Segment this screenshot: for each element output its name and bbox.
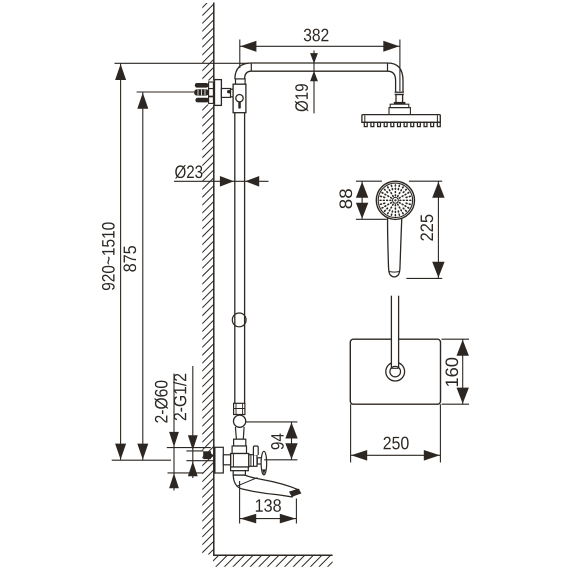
handle connector	[257, 458, 261, 464]
eccentric connector	[223, 455, 230, 465]
column pipe	[235, 113, 245, 404]
dimension Ø19 leader line	[313, 51, 315, 114]
bracket stem	[221, 89, 230, 98]
mixer collar2	[234, 439, 246, 446]
column slider sleeve	[233, 84, 246, 113]
mixer handle	[261, 451, 267, 475]
dimension 225 line	[432, 181, 444, 278]
dimension 160 line	[457, 339, 469, 404]
wall line	[213, 3, 215, 556]
hand shower head	[376, 181, 414, 219]
mixer neck	[235, 427, 244, 439]
spout nut	[231, 467, 249, 471]
spout tip	[289, 489, 301, 497]
dimension 225 extension bottom	[406, 277, 442, 279]
dimension 225 label	[420, 215, 433, 241]
fixture outer circle	[386, 362, 405, 381]
dimension 250 line	[351, 450, 441, 461]
dimension 382 line	[240, 41, 400, 52]
bracket bolt top	[195, 83, 209, 88]
label 2-G1/2 text	[173, 374, 186, 420]
dimension 875 label	[123, 246, 136, 272]
concealed box	[350, 339, 440, 404]
bracket flange plate	[215, 80, 222, 106]
spout neck	[233, 471, 245, 475]
overhead shower nozzle teeth	[364, 122, 440, 126]
dimension 225 extension top right	[409, 180, 442, 182]
bottom shared extension line	[112, 459, 171, 461]
dimension Ø23 label	[175, 165, 202, 178]
shower head flange	[394, 102, 406, 104]
dimension Ø19 label	[295, 84, 308, 111]
label 2-Ø60 leader	[173, 374, 175, 491]
dimension 88 extension bottom	[356, 218, 387, 220]
label 2-Ø60 text	[155, 381, 168, 423]
bracket backing patch	[194, 81, 214, 105]
dimension 382 label	[304, 29, 329, 42]
floor line	[213, 554, 333, 556]
dimension 138 line	[240, 514, 297, 524]
bracket nuts	[209, 82, 214, 103]
label 2-G1/2 arrows	[186, 435, 213, 476]
fixture pipe	[391, 296, 398, 369]
column collar	[236, 79, 246, 84]
bracket bolt middle	[194, 89, 209, 95]
label 2-G1/2 leader	[192, 366, 194, 478]
dimension 88 label	[339, 189, 352, 208]
cartridge rings	[249, 455, 257, 467]
mixer ball joint	[234, 415, 246, 427]
dimension 160 label	[445, 358, 458, 386]
wall hatching	[202, 0, 214, 568]
floor hatching	[207, 555, 357, 568]
dimension 94 line	[285, 422, 297, 460]
dimension 88 line	[356, 181, 368, 219]
mixer body	[231, 454, 249, 468]
shower head stem	[396, 95, 403, 102]
dimension 88 extension top left	[356, 180, 382, 182]
dimension 875 extension line top	[137, 91, 224, 93]
dimension 138 extension right	[295, 499, 297, 524]
bracket centerline	[137, 91, 224, 93]
fixture inner circle	[390, 366, 401, 377]
shower arm elbow left	[235, 63, 251, 79]
wall escutcheon	[215, 447, 223, 473]
dimension 382 extension left	[239, 40, 241, 69]
slider knob	[236, 95, 243, 109]
shower head neck	[389, 104, 410, 114]
dimension 94 extension bottom	[264, 459, 297, 461]
bracket bolt bottom	[195, 98, 209, 103]
dimension 920~1510 label	[102, 222, 115, 290]
label 2-Ø60 arrows	[167, 432, 211, 488]
dimension 920~1510 extension line top	[115, 62, 249, 64]
dimension 138 label	[256, 499, 281, 512]
inlet fitting	[203, 451, 214, 459]
dimension 875 line	[137, 92, 148, 460]
dimension 94 label	[271, 434, 284, 450]
dimension 920~1510 line	[115, 63, 126, 460]
shower arm elbow right	[388, 63, 404, 81]
dimension 382 extension right	[399, 40, 401, 92]
mixer nut	[232, 446, 246, 454]
hand shower nozzle dots	[379, 184, 411, 216]
dimension 94 extension top	[246, 421, 298, 423]
shower arm pipe	[251, 63, 387, 71]
hand shower handle	[388, 213, 402, 277]
bracket ball	[228, 89, 236, 97]
shower head ring nut	[395, 92, 404, 96]
column connector ring	[232, 313, 246, 327]
overhead shower tray	[362, 115, 440, 123]
dimension 250 extension left	[350, 404, 352, 462]
dimension Ø23 line	[174, 176, 269, 187]
diverter tab	[253, 446, 258, 455]
mixer top collar	[234, 403, 245, 414]
bracket pin	[227, 90, 231, 93]
shower head down pipe	[396, 81, 403, 93]
dimension 160 extension top	[442, 338, 470, 340]
dimension 250 extension right	[439, 404, 441, 462]
dimension Ø19 arrows	[310, 53, 318, 81]
dimension 250 label	[384, 437, 409, 450]
spout	[233, 475, 299, 497]
dimension 138 extension left	[239, 481, 241, 524]
dimension 160 extension bottom	[442, 403, 470, 405]
